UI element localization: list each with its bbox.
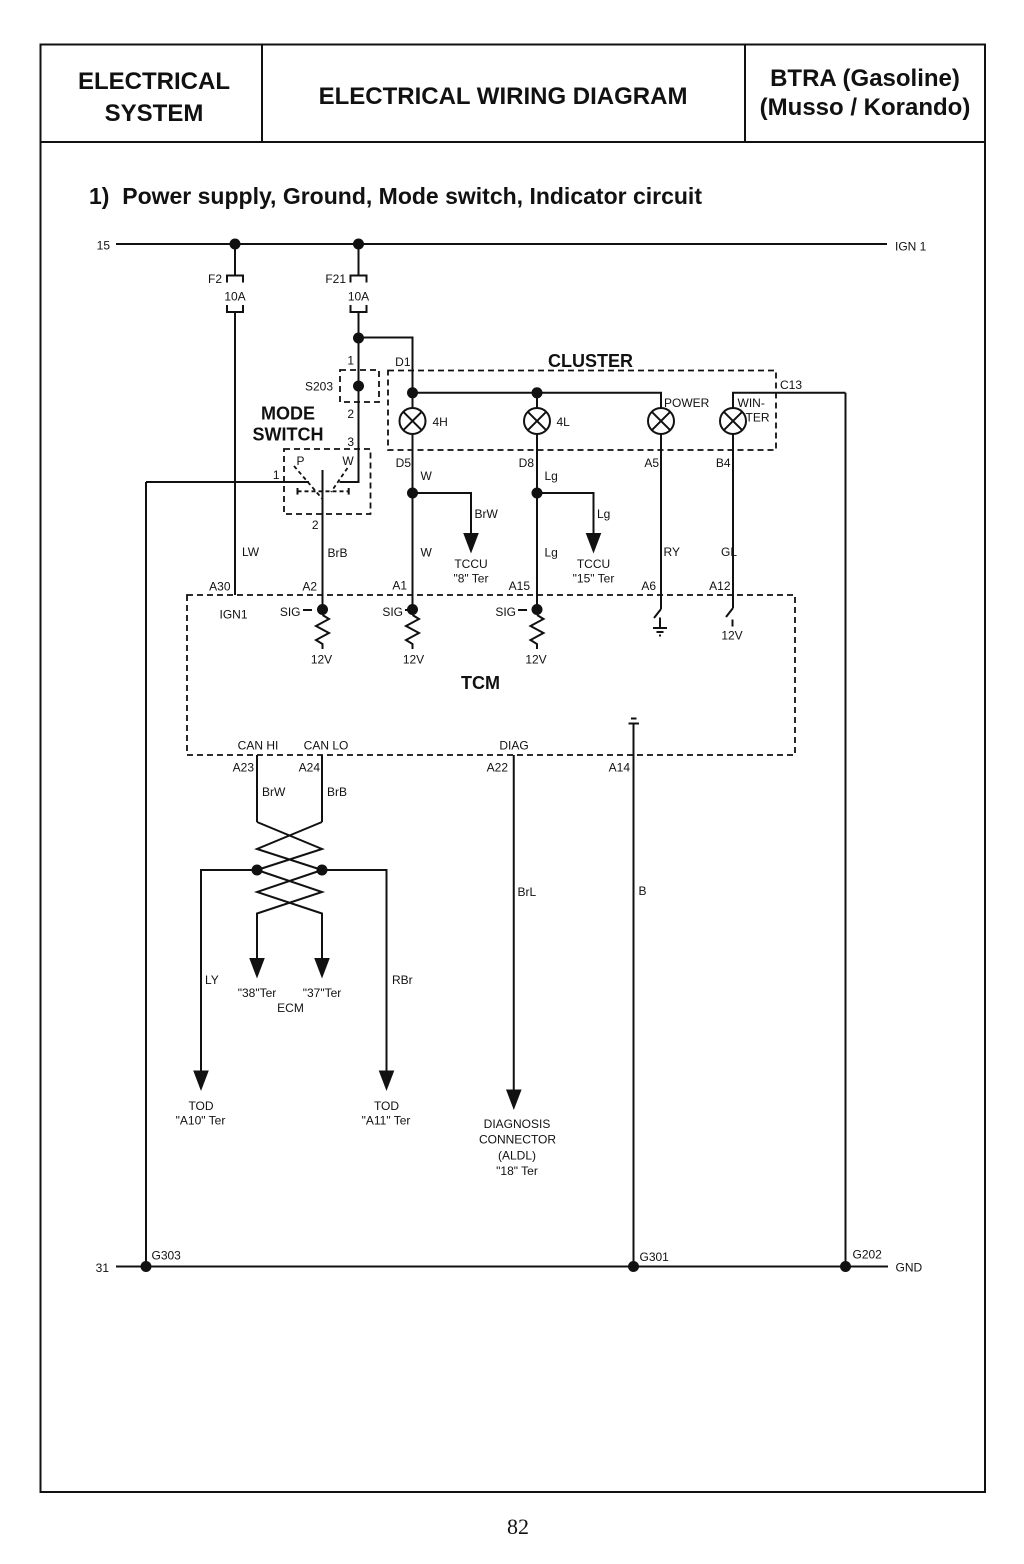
- svg-text:W: W: [342, 454, 354, 468]
- svg-text:A5: A5: [644, 456, 659, 470]
- wire F21 to branch node: [358, 312, 360, 338]
- svg-text:ELECTRICAL: ELECTRICAL: [78, 68, 230, 95]
- svg-text:WIN-: WIN-: [738, 396, 765, 410]
- svg-text:SIG: SIG: [382, 605, 403, 619]
- svg-text:4L: 4L: [557, 415, 571, 429]
- svg-text:A23: A23: [233, 761, 255, 775]
- wire WINTER lamp to C13: [733, 393, 846, 408]
- twisted pair upper: [257, 822, 322, 870]
- TCM box: [187, 595, 795, 755]
- junction on rail at F21: [353, 239, 364, 250]
- svg-text:GND: GND: [896, 1261, 923, 1275]
- svg-text:(ALDL): (ALDL): [498, 1149, 536, 1163]
- tie SIG to A1: [405, 609, 409, 611]
- svg-text:CLUSTER: CLUSTER: [548, 351, 633, 371]
- mode switch wiper W dashed: [331, 468, 348, 492]
- arrow to TCCU 8: [463, 533, 479, 554]
- svg-text:MODE: MODE: [261, 404, 315, 424]
- svg-text:BrL: BrL: [518, 885, 537, 899]
- junction SIG A2: [317, 604, 328, 615]
- resistor at A1: [406, 615, 419, 649]
- svg-text:A2: A2: [302, 580, 317, 594]
- svg-text:POWER: POWER: [664, 396, 710, 410]
- svg-text:A12: A12: [709, 579, 731, 593]
- svg-text:ELECTRICAL WIRING DIAGRAM: ELECTRICAL WIRING DIAGRAM: [319, 83, 688, 110]
- svg-text:TCCU: TCCU: [577, 557, 610, 571]
- wire rail to 4L lamp: [536, 393, 538, 408]
- ground inside TCM at A6: [653, 618, 667, 636]
- svg-text:GL: GL: [721, 545, 737, 559]
- label TCCU 8 Ter: [454, 557, 489, 586]
- arrow to TOD A11: [379, 1071, 395, 1092]
- wire WINTER lamp to A12: [732, 434, 734, 608]
- svg-text:CAN LO: CAN LO: [304, 739, 349, 753]
- wire A22 to diagnosis connector: [513, 755, 515, 1090]
- fuse F21: [351, 276, 367, 313]
- svg-text:1: 1: [347, 354, 354, 368]
- lamp 4L: [524, 408, 550, 434]
- svg-text:BrB: BrB: [328, 546, 348, 560]
- svg-text:G303: G303: [152, 1249, 182, 1263]
- svg-text:3: 3: [347, 435, 354, 449]
- svg-text:A15: A15: [509, 579, 531, 593]
- header cell: ELECTRICAL SYSTEM: [78, 68, 230, 127]
- junction SIG A1: [407, 604, 418, 615]
- svg-text:CONNECTOR: CONNECTOR: [479, 1133, 556, 1147]
- lamp WINTER: [720, 408, 746, 434]
- svg-text:"8" Ter: "8" Ter: [454, 572, 489, 586]
- svg-text:LY: LY: [205, 973, 219, 987]
- mode switch wiper P dashed: [294, 466, 322, 499]
- stub to 12V at A12: [732, 620, 734, 627]
- svg-text:G202: G202: [853, 1248, 883, 1262]
- svg-text:TOD: TOD: [374, 1099, 399, 1113]
- svg-text:IGN1: IGN1: [220, 608, 248, 622]
- wire branch to TCCU 15: [537, 493, 594, 534]
- svg-text:10A: 10A: [224, 290, 245, 304]
- wire A24 down: [321, 755, 323, 822]
- svg-text:ECM: ECM: [277, 1001, 304, 1015]
- svg-text:F2: F2: [208, 272, 222, 286]
- arrow to ECM 38: [249, 958, 265, 979]
- wire 4L lamp to A15: [536, 434, 538, 610]
- svg-text:D5: D5: [396, 456, 412, 470]
- svg-text:TCM: TCM: [461, 673, 500, 693]
- svg-text:S203: S203: [305, 380, 333, 394]
- junction G301: [628, 1261, 639, 1272]
- svg-text:"A11" Ter: "A11" Ter: [362, 1114, 411, 1128]
- svg-text:12V: 12V: [311, 653, 332, 667]
- tie SIG to A2: [303, 609, 312, 611]
- wire branch LY: [201, 870, 257, 1071]
- wire A14 to G301: [633, 724, 635, 1267]
- svg-text:1: 1: [273, 468, 280, 482]
- svg-text:Lg: Lg: [545, 546, 558, 560]
- junction in S203: [353, 381, 364, 392]
- svg-text:2: 2: [347, 407, 354, 421]
- svg-text:1) Power supply, Ground, Mode: 1) Power supply, Ground, Mode switch, In…: [89, 183, 702, 209]
- arrow to ECM 37: [314, 958, 330, 979]
- svg-text:SIG: SIG: [280, 605, 301, 619]
- svg-text:"38"Ter: "38"Ter: [238, 986, 277, 1000]
- mode switch box: [284, 449, 371, 514]
- wire mode switch pole to A2 (BrB): [322, 470, 324, 610]
- header cell: BTRA (Gasoline) (Musso / Korando): [760, 65, 971, 121]
- svg-text:CAN HI: CAN HI: [238, 739, 279, 753]
- svg-text:82: 82: [507, 1514, 529, 1539]
- svg-text:12V: 12V: [721, 629, 742, 643]
- label TCCU 15 Ter: [573, 557, 615, 586]
- arrow to diagnosis connector: [506, 1090, 522, 1111]
- svg-text:SWITCH: SWITCH: [253, 425, 324, 445]
- svg-text:RY: RY: [664, 545, 680, 559]
- wire rail to fuse F2: [234, 244, 236, 275]
- svg-text:DIAGNOSIS: DIAGNOSIS: [484, 1117, 551, 1131]
- wire rail to 4H lamp: [412, 393, 414, 408]
- wire F2 to A30 (LW): [234, 312, 236, 595]
- svg-text:Lg: Lg: [597, 507, 610, 521]
- arrow to TCCU 15: [586, 533, 602, 554]
- wire IGN1 top rail: [116, 243, 887, 245]
- arrow to TOD A10: [193, 1071, 209, 1092]
- svg-text:15: 15: [97, 239, 111, 253]
- junction A15 branch: [532, 488, 543, 499]
- svg-text:D1: D1: [395, 355, 411, 369]
- resistor at A2: [316, 615, 329, 649]
- junction twist left: [252, 865, 263, 876]
- svg-text:4H: 4H: [433, 415, 448, 429]
- wire ground rail: [116, 1266, 888, 1268]
- ground inside TCM at A14: [629, 719, 640, 724]
- svg-text:BrB: BrB: [327, 785, 347, 799]
- svg-text:SIG: SIG: [495, 605, 516, 619]
- switch contact at A12: [726, 608, 733, 617]
- label WIN-TER: [738, 396, 770, 425]
- wire POWER lamp to A6: [660, 434, 662, 609]
- label DIAGNOSIS CONNECTOR: [479, 1117, 556, 1178]
- wire mode switch pin1 to left: [146, 481, 309, 483]
- label TOD A10 Ter: [176, 1099, 226, 1128]
- wire mode switch pin1 to G303: [145, 482, 147, 1267]
- fuse F2: [227, 276, 243, 313]
- svg-text:BrW: BrW: [262, 785, 286, 799]
- svg-text:A22: A22: [487, 761, 509, 775]
- twisted pair lower: [257, 870, 322, 959]
- svg-text:"15" Ter: "15" Ter: [573, 572, 615, 586]
- label MODE SWITCH: [253, 404, 324, 445]
- svg-text:W: W: [421, 546, 433, 560]
- wire branch to TCCU 8: [413, 493, 472, 534]
- wire branch RBr: [322, 870, 387, 1071]
- svg-text:A6: A6: [641, 579, 656, 593]
- junction A1 branch: [407, 488, 418, 499]
- wire branch to D1: [359, 338, 413, 393]
- svg-text:SYSTEM: SYSTEM: [105, 100, 204, 127]
- wire F21 branch to mode switch W: [340, 338, 359, 482]
- header table border: [41, 45, 986, 143]
- junction SIG A15: [532, 604, 543, 615]
- cluster box: [388, 371, 776, 451]
- svg-text:RBr: RBr: [392, 973, 413, 987]
- tie SIG to A15: [518, 609, 527, 611]
- wire rail to fuse F21: [358, 244, 360, 275]
- svg-text:TER: TER: [746, 411, 770, 425]
- svg-text:F21: F21: [325, 272, 346, 286]
- wire 4H lamp to A1: [412, 434, 414, 610]
- svg-text:A1: A1: [392, 579, 407, 593]
- svg-text:B: B: [639, 884, 647, 898]
- svg-text:IGN 1: IGN 1: [895, 240, 927, 254]
- label TOD A11 Ter: [362, 1099, 411, 1128]
- svg-text:G301: G301: [640, 1250, 670, 1264]
- page frame: [41, 142, 986, 1492]
- svg-text:12V: 12V: [403, 653, 424, 667]
- svg-text:P: P: [296, 454, 304, 468]
- wire C13 to G202: [845, 393, 847, 1267]
- svg-text:2: 2: [312, 518, 319, 532]
- wire cluster supply rail: [413, 393, 662, 408]
- svg-text:A30: A30: [209, 580, 231, 594]
- wire A23 down: [256, 755, 258, 822]
- resistor at A15: [531, 615, 544, 649]
- svg-text:31: 31: [96, 1261, 110, 1275]
- junction G202: [840, 1261, 851, 1272]
- svg-text:BTRA (Gasoline): BTRA (Gasoline): [770, 65, 960, 92]
- svg-text:C13: C13: [780, 378, 802, 392]
- junction rail at 4L: [532, 387, 543, 398]
- switch contact at A6: [654, 609, 661, 618]
- svg-text:W: W: [421, 469, 433, 483]
- svg-text:DIAG: DIAG: [499, 739, 528, 753]
- svg-text:LW: LW: [242, 545, 260, 559]
- connector S203 box: [340, 370, 379, 402]
- svg-text:Lg: Lg: [545, 469, 558, 483]
- svg-text:"18" Ter: "18" Ter: [496, 1164, 538, 1178]
- lamp POWER: [648, 408, 674, 434]
- junction on rail at F2: [230, 239, 241, 250]
- mode switch actuator link dashed: [298, 488, 349, 495]
- lamp 4H: [400, 408, 426, 434]
- svg-text:BrW: BrW: [475, 507, 499, 521]
- svg-text:TOD: TOD: [188, 1099, 213, 1113]
- junction F21 branch: [353, 333, 364, 344]
- svg-text:12V: 12V: [525, 653, 546, 667]
- svg-text:D8: D8: [519, 456, 535, 470]
- svg-text:A14: A14: [609, 761, 631, 775]
- svg-text:A24: A24: [299, 761, 321, 775]
- svg-text:10A: 10A: [348, 290, 369, 304]
- svg-text:B4: B4: [716, 456, 731, 470]
- svg-text:(Musso / Korando): (Musso / Korando): [760, 94, 971, 121]
- junction rail at 4H: [407, 387, 418, 398]
- svg-text:TCCU: TCCU: [454, 557, 487, 571]
- junction twist right: [317, 865, 328, 876]
- junction G303: [141, 1261, 152, 1272]
- svg-text:"37"Ter: "37"Ter: [303, 986, 342, 1000]
- svg-text:"A10" Ter: "A10" Ter: [176, 1114, 226, 1128]
